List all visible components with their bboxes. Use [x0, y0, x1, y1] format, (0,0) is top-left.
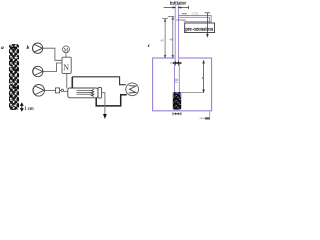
bottom width dimension: [173, 112, 181, 115]
pump P3: [33, 85, 45, 97]
pre-ozonation box: [185, 23, 215, 33]
wire pump3 to valve box: [45, 89, 56, 91]
recycle pump circle: [126, 83, 139, 96]
rope inside reactor: [173, 92, 181, 110]
svg-text:b: b: [27, 45, 30, 51]
wire pump1 to mixer: [43, 48, 62, 60]
wire pump2 to mixer: [43, 63, 62, 72]
pump P1: [32, 43, 42, 53]
fiber end zigzag: [91, 89, 94, 96]
svg-text:pre-ozonation: pre-ozonation: [185, 27, 213, 32]
recycle loop bottom wire (thick): [96, 95, 127, 106]
wire: [60, 89, 61, 91]
tiny text inside tube: [175, 79, 178, 83]
rotated M inside recycle pump: [129, 86, 136, 93]
product outlet wire: [102, 93, 105, 114]
svg-text:a: a: [1, 45, 4, 51]
svg-text:N: N: [63, 63, 69, 72]
top tube diameter dimension: [164, 6, 189, 9]
rope sample (photo): [9, 44, 19, 110]
union fitting: [173, 61, 182, 66]
leader from rope top to D3: [181, 91, 203, 93]
rope texture irregularities: [10, 51, 18, 106]
svg-text:M: M: [64, 48, 69, 53]
svg-text:45: 45: [161, 38, 165, 42]
svg-text:c: c: [148, 43, 151, 49]
dimension D3 inside reactor: [203, 61, 205, 92]
dimension line D2 (40): [168, 17, 175, 58]
svg-text:1 cm: 1 cm: [24, 107, 34, 112]
bottom-right faint annotation: [200, 117, 206, 119]
wire to module: [64, 90, 68, 92]
valve box: [56, 88, 60, 93]
pre-ozonation feed pipe (double purple): [179, 16, 212, 24]
reactor vessel: [153, 58, 212, 111]
tiny pointer at fitting: [170, 62, 172, 64]
pump P2: [33, 66, 43, 76]
dimension line D1 (45): [162, 19, 168, 58]
initiator inlet tube (upper, narrow): [175, 5, 178, 62]
purple edges on reactor rope: [172, 92, 174, 98]
0.58 leader: [182, 13, 187, 15]
wire mixer to module: [66, 73, 68, 88]
motor shaft wire: [65, 53, 67, 58]
small valve circle: [61, 89, 64, 92]
mixer vessel N: [62, 57, 71, 73]
recycle return pipe (thick) into module top: [71, 77, 73, 88]
product outlet arrowhead: [103, 114, 107, 119]
membrane module body: [68, 88, 98, 98]
white gap in vessel top for tube: [175, 57, 179, 59]
motor M1: [63, 46, 70, 53]
module right end cap: [98, 88, 102, 99]
module fibers: [77, 91, 92, 95]
dimension D4: [205, 13, 211, 37]
reactor inner tube (lower, wider): [175, 64, 180, 92]
svg-text:initiator: initiator: [170, 1, 186, 7]
svg-text:40: 40: [169, 38, 173, 42]
second leader: [176, 19, 186, 21]
scale bar arrow: [21, 103, 23, 111]
purple dot at rope top: [175, 92, 178, 94]
recycle loop top wire: [72, 77, 126, 85]
